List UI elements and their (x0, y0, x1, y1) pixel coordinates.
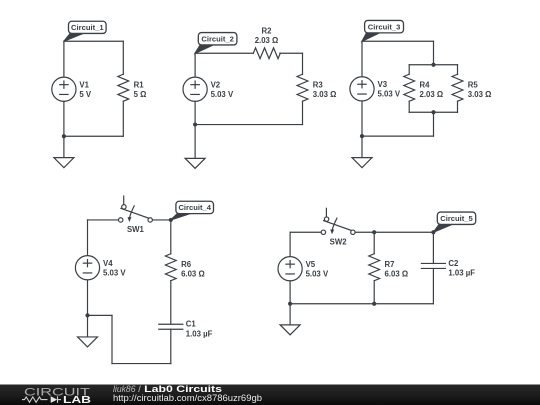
wire R6 top lead (170, 220, 172, 254)
svg-text:1.03 µF: 1.03 µF (448, 268, 475, 277)
wire R4 bottom lead (408, 101, 410, 112)
svg-text:http://circuitlab.com/cx8786uz: http://circuitlab.com/cx8786uzr69gb (113, 393, 262, 403)
wire SW1 left lead (88, 219, 119, 221)
switch SW1 (119, 196, 153, 234)
label Circuit_4 (171, 201, 214, 220)
ground circuit 4 (78, 337, 98, 347)
svg-text:R3: R3 (313, 80, 324, 89)
wire V2 bottom lead (194, 101, 196, 124)
svg-text:V4: V4 (103, 259, 113, 268)
wire junction to riser (88, 314, 113, 316)
svg-text:Circuit_3: Circuit_3 (368, 22, 401, 31)
wire R7 bottom lead (373, 281, 375, 304)
wire bottom rail circuit 1 (64, 135, 123, 137)
wire V1 bottom lead (63, 101, 65, 136)
capacitor C1 (159, 320, 213, 339)
logo resistor squiggle (22, 397, 48, 402)
resistor R3 (297, 74, 336, 101)
svg-text:6.03 Ω: 6.03 Ω (181, 269, 205, 278)
capacitor C2 (421, 259, 475, 278)
wire R1 bottom lead (122, 101, 124, 136)
wire V1 top lead (63, 41, 65, 77)
wire ground stem circuit 5 (289, 304, 291, 325)
wire bottom rail circuit 5 (290, 303, 433, 305)
svg-text:5 V: 5 V (79, 90, 92, 99)
node parallel bottom (431, 110, 435, 114)
node circuit 3 ground junction (360, 134, 364, 138)
resistor R5 (452, 74, 491, 101)
resistor R1 (118, 74, 146, 101)
ground circuit 5 (280, 325, 300, 335)
svg-text:Circuit_4: Circuit_4 (178, 203, 211, 212)
wire parallel bottom rail (409, 111, 457, 113)
svg-text:Circuit_5: Circuit_5 (440, 214, 473, 223)
wire C2 top lead (432, 232, 434, 263)
logo diode (51, 396, 61, 403)
wire top rail left circuit 2 (195, 52, 253, 54)
svg-text:R7: R7 (385, 260, 395, 269)
wire R5 top lead (457, 65, 459, 75)
wire SW2 left lead (290, 231, 321, 233)
svg-text:V2: V2 (211, 80, 221, 89)
resistor R7 (369, 254, 408, 281)
wire V4 bottom lead (87, 280, 89, 316)
svg-text:C2: C2 (448, 259, 459, 268)
svg-text:V1: V1 (79, 80, 89, 89)
svg-text:R4: R4 (420, 80, 431, 89)
svg-text:2.03 Ω: 2.03 Ω (420, 90, 444, 99)
svg-text:V3: V3 (378, 80, 388, 89)
wire R7 top lead (373, 232, 375, 254)
wire stem from parallel block (433, 112, 435, 136)
label Circuit_1 (64, 21, 106, 41)
wire top rail circuit 3 (362, 40, 434, 42)
node circuit 1 ground junction (62, 134, 66, 138)
wire ground stem circuit 3 (361, 136, 363, 157)
svg-text:3.03 Ω: 3.03 Ω (313, 90, 337, 99)
wire SW1 right lead (152, 219, 170, 221)
wire ground stem circuit 1 (63, 136, 65, 157)
svg-text:5 Ω: 5 Ω (134, 90, 147, 99)
wire ground stem circuit 2 (194, 125, 196, 159)
svg-text:6.03 Ω: 6.03 Ω (385, 269, 409, 278)
label Circuit_2 (195, 33, 237, 54)
label Circuit_3 (362, 20, 403, 41)
wire stem to parallel block (433, 41, 435, 65)
wire R5 bottom lead (457, 101, 459, 112)
wire parallel top rail (409, 64, 457, 66)
wire bottom rail circuit 4 (112, 363, 171, 365)
node circuit 4 ground junction (85, 313, 89, 317)
svg-text:LAB: LAB (63, 395, 91, 405)
label Circuit_5 (433, 212, 475, 232)
wire R3 bottom lead (302, 101, 304, 124)
node R7 bottom (372, 302, 376, 306)
node circuit 5 ground junction (288, 302, 292, 306)
wire V5 top lead (289, 232, 291, 256)
wire C2 bottom lead (432, 268, 434, 303)
CircuitLab logo wordmark (24, 386, 91, 398)
wire bottom rail circuit 2 (195, 124, 302, 126)
wire R1 top lead (122, 41, 124, 74)
ground circuit 2 (185, 158, 205, 168)
svg-text:V5: V5 (306, 260, 316, 269)
svg-text:R5: R5 (468, 80, 479, 89)
wire ground stem circuit 4 (87, 315, 89, 337)
voltage source V2 (183, 77, 234, 101)
svg-text:SW2: SW2 (330, 237, 348, 246)
voltage source V5 (278, 257, 329, 281)
wire left riser circuit 4 (111, 315, 113, 363)
wire top rail right circuit 2 (280, 52, 303, 54)
resistor R6 (165, 254, 204, 281)
wire V4 top lead (87, 220, 89, 256)
svg-text:2.03 Ω: 2.03 Ω (255, 36, 279, 45)
node circuit 2 ground junction (193, 122, 197, 126)
svg-text:SW1: SW1 (127, 225, 145, 234)
wire V2 top lead (194, 53, 196, 77)
footer bar (0, 385, 540, 405)
wire C1 bottom lead (170, 329, 172, 363)
svg-text:C1: C1 (186, 320, 197, 329)
wire R4 top lead (408, 65, 410, 75)
wire bottom rail circuit 3 (362, 135, 434, 137)
resistor R4 (404, 74, 443, 101)
svg-text:5.03 V: 5.03 V (378, 89, 401, 98)
wire V3 bottom lead (361, 101, 363, 136)
switch SW2 (321, 208, 355, 246)
svg-text:5.03 V: 5.03 V (211, 90, 234, 99)
svg-text:R1: R1 (134, 80, 145, 89)
wire top rail circuit 1 (64, 40, 123, 42)
wire R3 top lead (302, 53, 304, 74)
voltage source V1 (52, 77, 92, 101)
svg-text:R6: R6 (181, 260, 192, 269)
wire SW2 to C2 top rail (355, 231, 433, 233)
node parallel top (431, 63, 435, 67)
node R7 top (372, 230, 376, 234)
svg-text:1.03 µF: 1.03 µF (186, 329, 213, 338)
svg-text:R2: R2 (262, 26, 273, 35)
wire R6 to C1 (170, 281, 172, 325)
voltage source V3 (350, 77, 401, 101)
svg-text:5.03 V: 5.03 V (306, 269, 329, 278)
ground circuit 3 (352, 158, 372, 168)
node circuit 5 top right (431, 230, 435, 234)
svg-text:5.03 V: 5.03 V (103, 268, 126, 277)
svg-text:3.03 Ω: 3.03 Ω (468, 90, 492, 99)
svg-text:Circuit_1: Circuit_1 (71, 23, 104, 32)
voltage source V4 (75, 256, 126, 280)
svg-text:Circuit_2: Circuit_2 (201, 34, 234, 43)
resistor R2 (253, 26, 280, 58)
wire V5 bottom lead (289, 281, 291, 304)
wire V3 top lead (361, 41, 363, 77)
ground circuit 1 (54, 158, 74, 168)
node circuit 4 top right (169, 218, 173, 222)
